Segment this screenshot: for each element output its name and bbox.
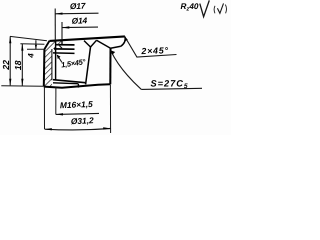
part outline: top-left bevel [44, 41, 49, 49]
dim 4: dimension line [35, 40, 37, 49]
part outline: top face [50, 36, 125, 41]
wrench size S=27: underline [141, 88, 202, 89]
chamfer line on right facet [97, 40, 111, 48]
bottom internal line [53, 80, 85, 83]
svg-text:Ø17: Ø17 [70, 1, 86, 12]
parenthesis open [213, 6, 216, 14]
dim 22: dimension line [9, 36, 11, 85]
dim 4: arrow down [35, 45, 37, 49]
hatched section wall [44, 40, 62, 86]
small check mark [217, 3, 223, 13]
hole edge top wall [61, 40, 63, 44]
part outline: bottom face [44, 84, 111, 88]
svg-text:22: 22 [1, 60, 11, 71]
svg-text:4: 4 [27, 53, 36, 59]
part outline: top-right bevel arc [121, 37, 125, 47]
svg-text:S=27C5: S=27C5 [151, 79, 189, 91]
thread M16: dimension line [56, 113, 99, 114]
dim 18: extension line top (ceiling) [20, 43, 44, 46]
dim Ø31,2: arrow right [103, 127, 110, 129]
part outline: left edge [43, 49, 46, 86]
dim Ø14: arrow [62, 26, 69, 28]
chamfer V right arm [91, 40, 97, 47]
dim 22: extension line top [10, 36, 47, 40]
internal hole chamfer [58, 45, 62, 49]
bottom face extension line (left) [1, 85, 44, 88]
chamfer 1.5x45: arrow [57, 55, 61, 59]
dim 22: arrow down [9, 79, 11, 86]
dim Ø31,2: arrow left [45, 128, 52, 130]
bottom chamfer vertical [77, 84, 79, 88]
dim Ø14: extension line [61, 22, 63, 40]
thread M16: extension line [55, 87, 57, 115]
svg-text:18: 18 [13, 60, 23, 70]
thread minor / bore line [55, 41, 57, 80]
wrench size S=27: leader [111, 51, 141, 89]
parenthesis close [225, 5, 226, 14]
dim 22: arrow up [9, 36, 11, 43]
chamfer 2x45: arrow [125, 37, 128, 42]
dim Ø31,2: right extension line [109, 85, 111, 134]
dim 18: arrow up [21, 44, 23, 51]
dim 18: dimension line [21, 44, 23, 86]
chamfer V left arm [84, 41, 91, 47]
wrench size S=27: arrow [111, 50, 116, 54]
bottom internal line B [53, 82, 78, 85]
thread major line (thin) [51, 49, 53, 80]
surface finish check mark [200, 0, 210, 16]
internal recess bottom line [54, 48, 75, 50]
svg-text:1,5×45°: 1,5×45° [61, 57, 87, 69]
svg-text:2×45°: 2×45° [140, 45, 169, 56]
internal chamfer ring line [53, 52, 75, 55]
dim Ø17: arrow [55, 13, 62, 15]
dim 18: arrow down [21, 79, 23, 86]
svg-text:M16×1,5: M16×1,5 [60, 99, 94, 110]
chamfer 1.5x45: leader [57, 55, 62, 62]
part outline: bevel-to-corner connector [111, 46, 121, 48]
dim Ø17: dimension line [55, 12, 98, 15]
svg-text:Ø31,2: Ø31,2 [71, 115, 95, 126]
thread M16: arrow [56, 113, 63, 115]
facet edge (middle vertical) [86, 47, 91, 84]
dim Ø17: extension line [54, 9, 56, 41]
internal ceiling line [55, 44, 75, 46]
chamfer 2x45: leader [125, 37, 177, 57]
svg-text:Ø14: Ø14 [72, 15, 88, 26]
dim 4: extension line (recess bottom) [27, 48, 44, 50]
svg-text:Rz40: Rz40 [181, 2, 199, 12]
dim Ø31,2: dimension line [45, 129, 111, 130]
part outline: right edge [109, 48, 111, 84]
dim Ø14: dimension line [62, 26, 98, 29]
dim Ø31,2: left extension line [43, 87, 45, 129]
